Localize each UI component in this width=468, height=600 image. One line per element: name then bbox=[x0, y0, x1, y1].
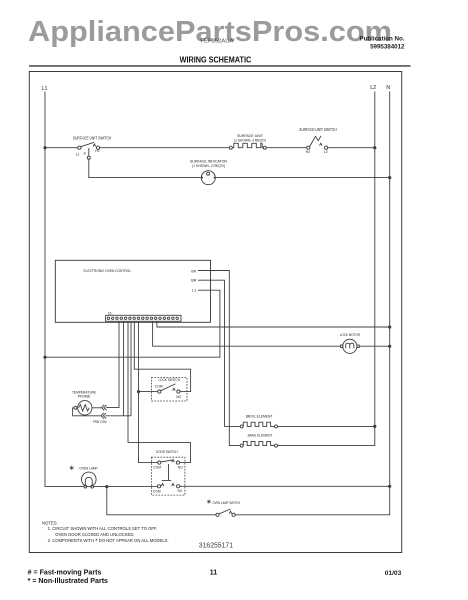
svg-text:5995384012: 5995384012 bbox=[370, 44, 405, 51]
svg-text:FEF352AUA: FEF352AUA bbox=[200, 38, 233, 44]
pin H2 of SW2 bbox=[306, 150, 311, 154]
wire U1 BR to broil element bbox=[198, 280, 240, 426]
svg-text:OVEN LAMP: OVEN LAMP bbox=[79, 466, 98, 470]
junction lock motor wire on N rail bbox=[388, 345, 391, 348]
svg-text:SURFACE INDICATOR: SURFACE INDICATOR bbox=[190, 159, 227, 164]
wire strip terminal to lock COM and door COM bbox=[139, 321, 158, 462]
electronic oven control U1 box bbox=[55, 260, 210, 322]
svg-text:COM: COM bbox=[153, 489, 161, 493]
surface unit switch SW1 bbox=[78, 142, 100, 159]
wire broil element to L2 rail bbox=[278, 425, 375, 427]
svg-text:WIRING SCHEMATIC: WIRING SCHEMATIC bbox=[180, 56, 252, 65]
lock switch label bbox=[158, 378, 180, 382]
svg-text:01/03: 01/03 bbox=[385, 570, 402, 577]
junction lock switch COM branch bbox=[137, 390, 140, 393]
svg-text:(1 SHOWN, 4 REQ'D): (1 SHOWN, 4 REQ'D) bbox=[234, 138, 266, 142]
svg-text:COM: COM bbox=[153, 466, 161, 470]
pin L1 of U1 bbox=[192, 288, 196, 292]
pin NC of SW4 pole2 bbox=[178, 489, 183, 493]
notes block bbox=[42, 521, 169, 546]
wire U1 BK to bake element bbox=[198, 271, 240, 446]
surface unit heating element bbox=[229, 143, 266, 149]
svg-text:H2: H2 bbox=[306, 150, 311, 154]
svg-text:SURFACE UNIT SWITCH: SURFACE UNIT SWITCH bbox=[299, 127, 337, 132]
electronic oven control label bbox=[84, 268, 132, 273]
asterisk mark oven lamp switch bbox=[207, 500, 210, 504]
surface unit element label bbox=[234, 133, 266, 143]
pin H1 of SW1 bbox=[95, 149, 100, 153]
door switch mechanical link bbox=[162, 464, 171, 480]
PRB COM label bbox=[93, 420, 107, 424]
wire strip terminal to N rail bbox=[157, 321, 390, 327]
svg-text:L1: L1 bbox=[42, 86, 48, 92]
svg-text:LOCK SWITCH: LOCK SWITCH bbox=[158, 378, 180, 382]
bake element bbox=[240, 441, 277, 447]
pin COM of SW3 bbox=[155, 385, 163, 389]
wire N vertical rail (ends into oven lamp switch wire) bbox=[235, 92, 390, 515]
wire P terminal down and right to indicator bbox=[89, 159, 201, 177]
pin 15 label of strip bbox=[108, 312, 112, 316]
wire L1 to surface unit switch bbox=[45, 147, 78, 149]
door switch outer label bbox=[156, 450, 178, 454]
surface unit switch SW2 bbox=[307, 136, 328, 149]
connector probe jack upper bbox=[101, 405, 106, 410]
svg-text:* = Non-Illustrated Parts: * = Non-Illustrated Parts bbox=[28, 576, 108, 585]
svg-text:PROBE: PROBE bbox=[78, 395, 91, 399]
junction SW2 wire on L2 rail bbox=[373, 146, 376, 149]
svg-text:BR: BR bbox=[191, 279, 197, 283]
pin NO of SW3 bbox=[176, 395, 181, 399]
wire strip terminal to door switch loop bbox=[128, 321, 191, 462]
surface indicator lamp bbox=[201, 171, 216, 185]
pin COM of SW4 pole1 bbox=[153, 466, 161, 470]
svg-text:BROIL ELEMENT: BROIL ELEMENT bbox=[246, 415, 273, 419]
junction door pole2 wire on N rail bbox=[388, 485, 391, 488]
svg-text:L1: L1 bbox=[192, 288, 196, 292]
junction strip wire on N rail bbox=[388, 325, 391, 328]
svg-text:L2: L2 bbox=[324, 150, 328, 154]
temperature probe label bbox=[72, 390, 97, 398]
oven lamp switch SW5 bbox=[216, 509, 235, 516]
svg-text:Publication No.: Publication No. bbox=[359, 36, 404, 43]
wire U1 L1 to L1 rail bbox=[45, 290, 220, 357]
node L1 label bbox=[42, 86, 48, 92]
svg-text:DOOR SWITCH: DOOR SWITCH bbox=[156, 450, 178, 454]
header rule bbox=[29, 65, 411, 66]
svg-text:316255171: 316255171 bbox=[199, 541, 233, 550]
svg-text:15: 15 bbox=[108, 312, 112, 316]
svg-text:H1: H1 bbox=[95, 149, 100, 153]
wire SW1 to surface unit element bbox=[100, 147, 230, 149]
junction L1 rail to U1 bbox=[43, 356, 46, 359]
svg-text:ELECTRONIC OVEN CONTROL: ELECTRONIC OVEN CONTROL bbox=[84, 268, 132, 273]
door switch SW4 pole 2 bbox=[157, 484, 179, 488]
part number 316255171 bbox=[199, 541, 233, 550]
lock motor M1 bbox=[341, 339, 360, 353]
svg-text:OVEN LAMP SWITCH: OVEN LAMP SWITCH bbox=[213, 501, 241, 505]
wire L1 rail to oven lamp bbox=[45, 486, 84, 488]
svg-text:NO: NO bbox=[178, 466, 183, 470]
lock switch box bbox=[152, 378, 188, 402]
svg-text:NOTES:: NOTES: bbox=[42, 521, 58, 526]
wire lock motor to N rail bbox=[359, 345, 390, 347]
wire strip terminal to lock motor bbox=[153, 321, 341, 346]
temperature probe RT1 bbox=[74, 401, 92, 415]
broil element bbox=[240, 422, 277, 428]
svg-text:(1 SHOWN, 2 REQ'D): (1 SHOWN, 2 REQ'D) bbox=[192, 164, 225, 168]
node N label bbox=[386, 85, 390, 91]
svg-text:1. CIRCUIT SHOWN WITH ALL CON: 1. CIRCUIT SHOWN WITH ALL CONTROLS SET T… bbox=[48, 526, 158, 531]
svg-text:L2: L2 bbox=[370, 85, 376, 91]
broil element label bbox=[246, 415, 273, 419]
connector probe jack lower bbox=[101, 413, 106, 418]
svg-text:L1: L1 bbox=[76, 152, 80, 156]
wire probe left terminal loop to common bbox=[73, 408, 101, 416]
pin NO of SW4 pole1 bbox=[178, 466, 183, 470]
svg-text:NO: NO bbox=[176, 395, 181, 399]
pin BK of U1 bbox=[191, 269, 197, 273]
terminal strip of U1 bbox=[106, 315, 181, 321]
asterisk mark oven lamp bbox=[70, 466, 74, 470]
frame border bbox=[29, 72, 401, 553]
wire surface unit to SW2 bbox=[266, 147, 307, 149]
svg-text:NC: NC bbox=[178, 489, 183, 493]
wire strip terminal to lock switch NO loop bbox=[134, 321, 190, 391]
wire junction to lock switch COM bbox=[139, 391, 158, 393]
lock motor M1 label bbox=[340, 333, 360, 337]
junction broil wire on L2 rail bbox=[373, 425, 376, 428]
svg-text:OVEN DOOR CLOSED AND UNLOCKED.: OVEN DOOR CLOSED AND UNLOCKED. bbox=[55, 532, 134, 537]
surface indicator label bbox=[190, 159, 227, 169]
pin P of SW1 bbox=[84, 152, 87, 156]
wire strip terminal to probe common bbox=[130, 321, 132, 416]
oven lamp DS1 bbox=[82, 472, 97, 488]
wire probe right terminal to jack bbox=[92, 407, 101, 409]
wire door pole2 to N rail bbox=[180, 485, 390, 487]
wire L1 vertical rail bbox=[44, 92, 46, 488]
door switch box bbox=[152, 457, 185, 495]
pin COM of SW4 pole2 bbox=[153, 489, 161, 493]
svg-text:COM: COM bbox=[155, 385, 163, 389]
svg-text:BK: BK bbox=[191, 269, 197, 273]
wire junction down to oven lamp switch bbox=[107, 487, 216, 515]
junction indicator wire on N rail bbox=[388, 176, 391, 179]
junction L1 to surface circuit bbox=[43, 146, 46, 149]
oven lamp switch label with asterisk bbox=[213, 501, 241, 505]
svg-text:SURFACE UNIT SWITCH: SURFACE UNIT SWITCH bbox=[73, 136, 112, 141]
wire strip terminal to probe jack upper bbox=[106, 321, 119, 407]
lock switch SW3 bbox=[158, 384, 180, 393]
svg-text:BAKE ELEMENT: BAKE ELEMENT bbox=[248, 434, 273, 438]
bake element label bbox=[248, 434, 273, 438]
wire probe common run bbox=[106, 415, 132, 417]
svg-text:PRB COM: PRB COM bbox=[93, 420, 107, 424]
pin L2 of SW2 bbox=[324, 150, 328, 154]
wire L2 vertical rail (ends into bake element wire) bbox=[278, 92, 375, 446]
surface unit switch SW2 label bbox=[299, 127, 337, 132]
wire indicator to N rail bbox=[215, 177, 389, 179]
wire strip terminal to probe jack lower bbox=[123, 321, 125, 416]
node L2 label bbox=[370, 85, 376, 91]
wire oven lamp to door switch pole2 bbox=[94, 486, 158, 488]
svg-text:SURFACE UNIT: SURFACE UNIT bbox=[237, 133, 264, 138]
surface unit switch SW1 label bbox=[73, 136, 112, 141]
junction oven lamp switch branch bbox=[105, 485, 108, 488]
svg-text:LOCK MOTOR: LOCK MOTOR bbox=[340, 333, 360, 337]
pin L1 of SW1 bbox=[76, 152, 80, 156]
oven lamp label with asterisk bbox=[79, 466, 98, 470]
svg-text:11: 11 bbox=[210, 569, 218, 576]
svg-text:N: N bbox=[386, 85, 390, 91]
pin BR of U1 bbox=[191, 279, 197, 283]
door switch SW4 pole 1 bbox=[158, 460, 180, 465]
wire SW2 to L2 rail bbox=[328, 147, 375, 149]
